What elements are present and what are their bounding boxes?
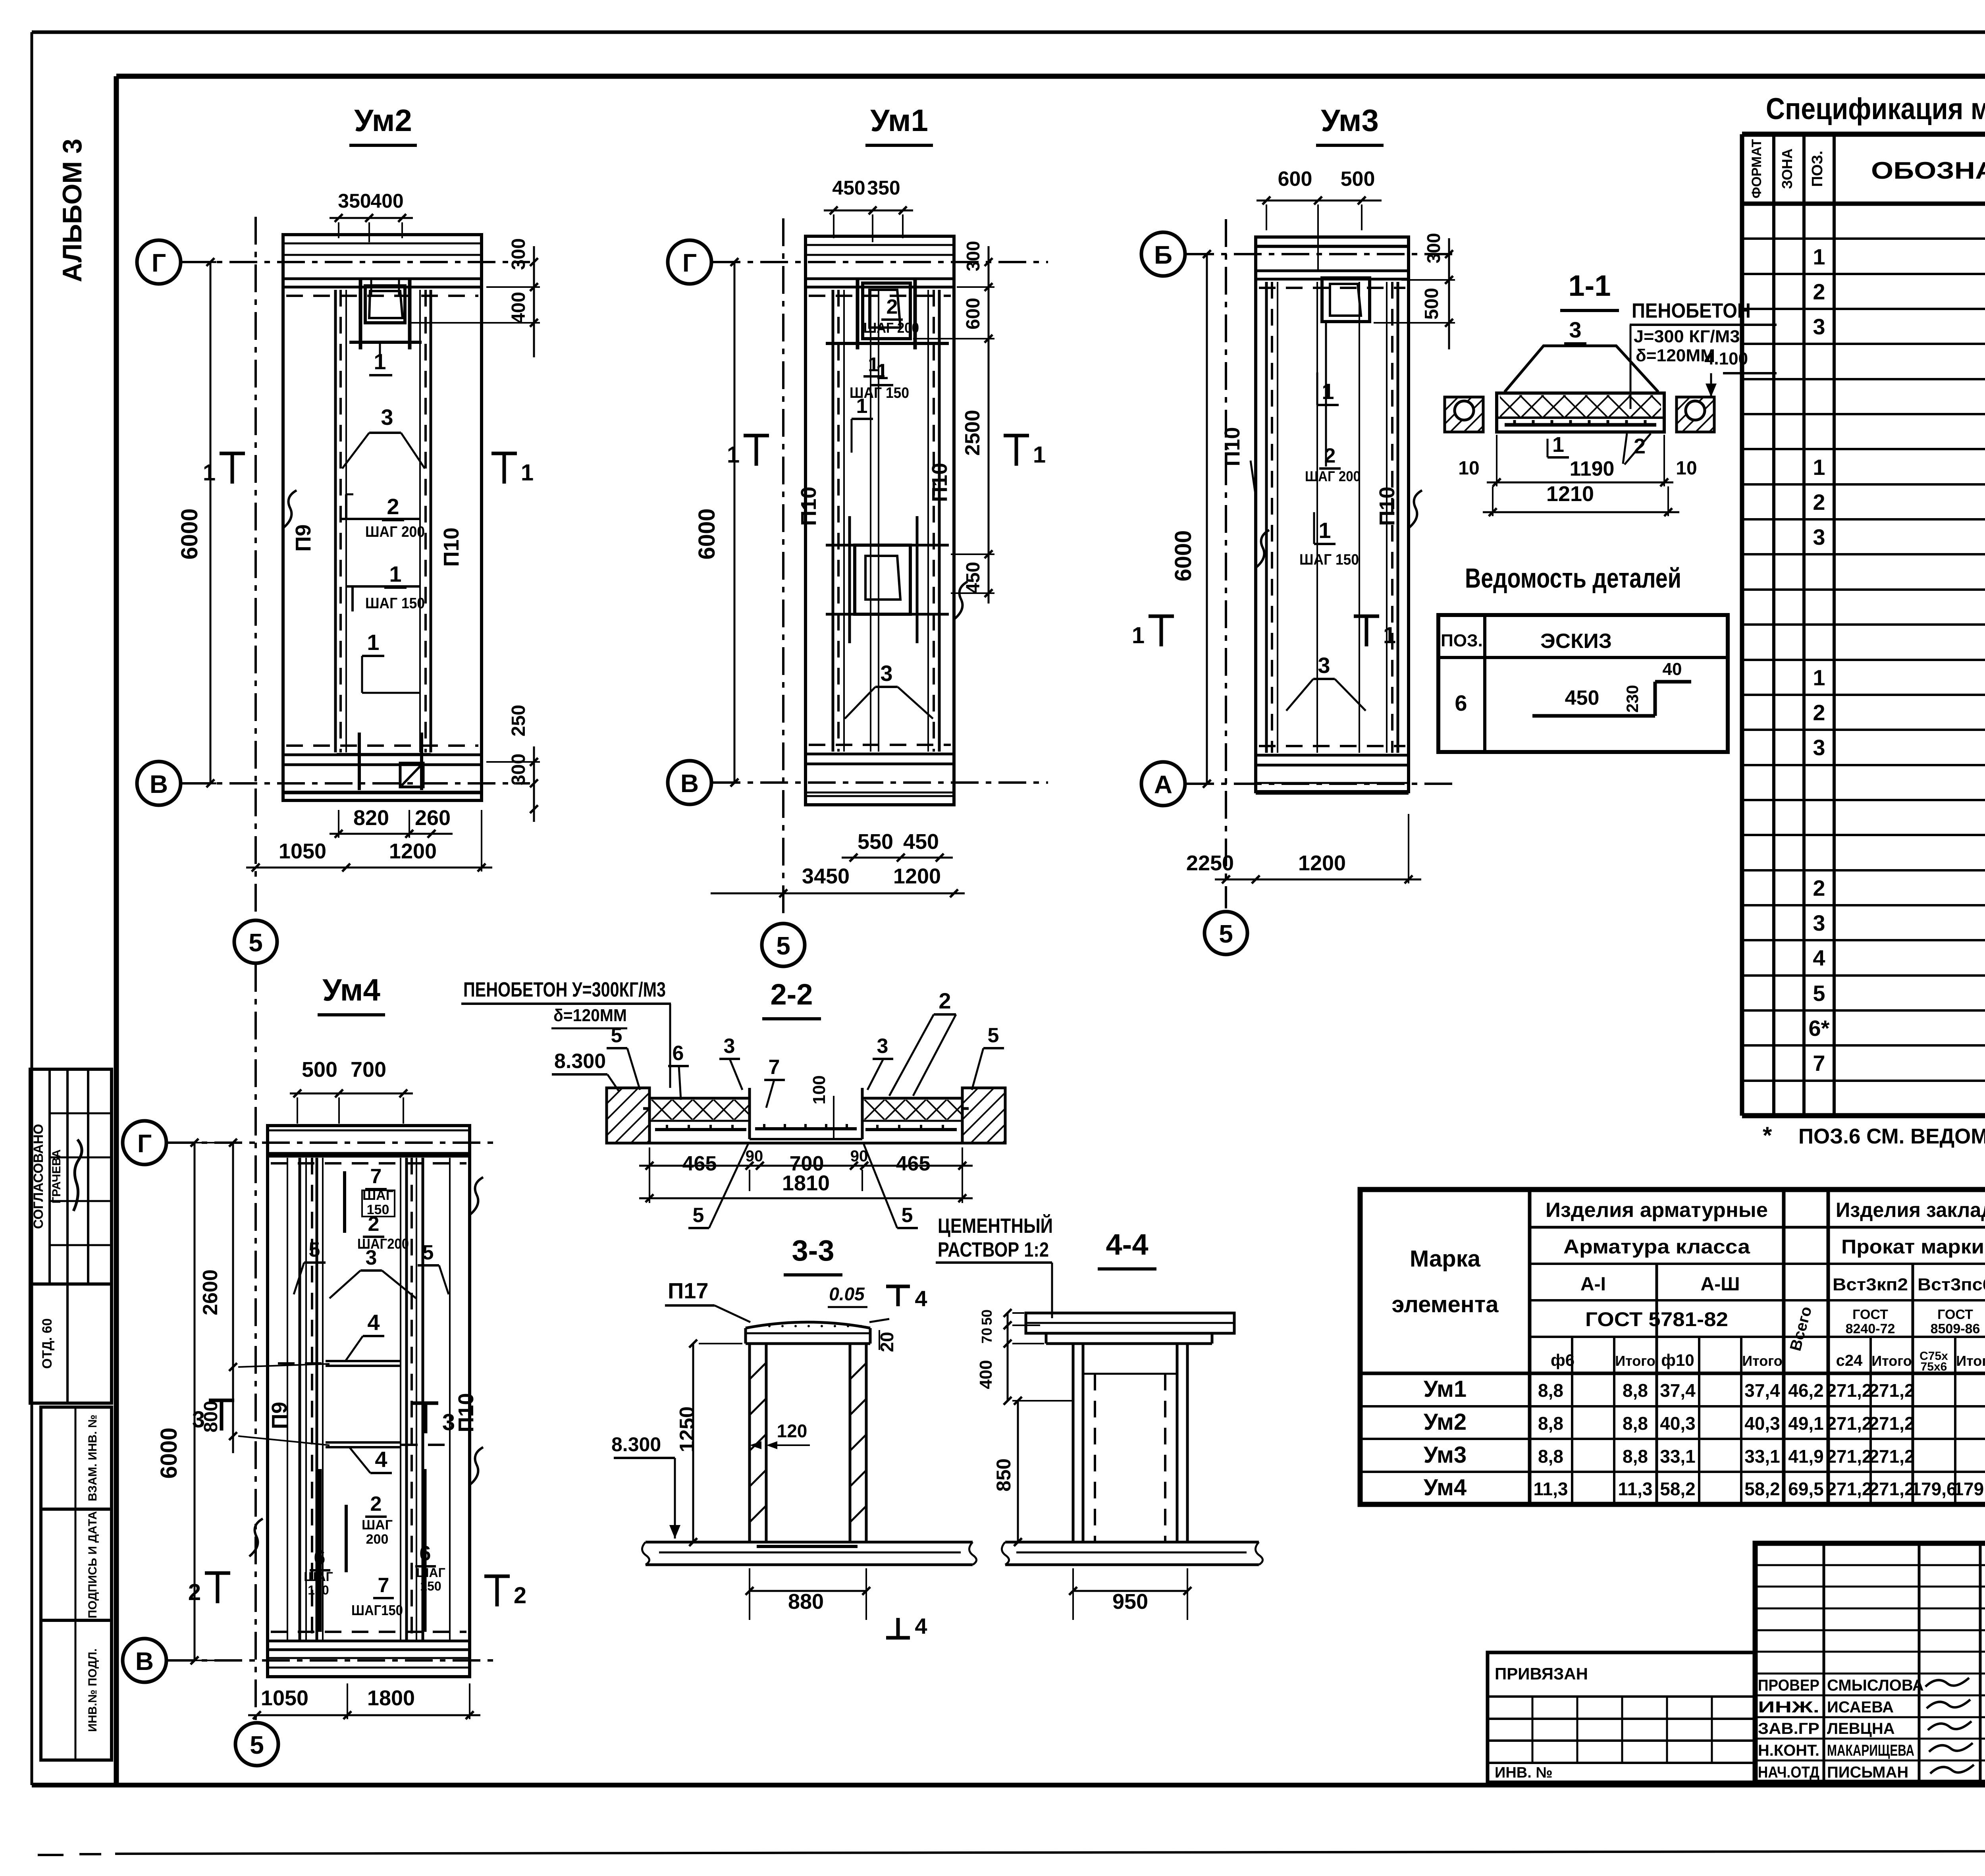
svg-text:3: 3 — [366, 1246, 377, 1269]
svg-text:ПРОВЕР: ПРОВЕР — [1758, 1677, 1819, 1694]
sidebar box INV No PODL — [41, 1620, 112, 1760]
svg-text:5: 5 — [776, 931, 790, 960]
svg-text:В: В — [135, 1647, 154, 1675]
svg-text:2-2: 2-2 — [771, 978, 813, 1011]
svg-text:1800: 1800 — [367, 1686, 415, 1710]
svg-text:5: 5 — [422, 1241, 434, 1264]
sidebar box VZAM INV No — [41, 1407, 112, 1509]
svg-text:600: 600 — [1278, 168, 1312, 191]
svg-text:П10: П10 — [454, 1393, 478, 1433]
svg-text:3: 3 — [880, 661, 892, 686]
view Um2 bottom dimensions — [330, 833, 453, 835]
svg-text:СМЫСЛОВА: СМЫСЛОВА — [1827, 1677, 1924, 1694]
svg-text:НАЧ.ОТД: НАЧ.ОТД — [1758, 1764, 1819, 1781]
svg-text:1: 1 — [876, 359, 888, 384]
svg-text:3: 3 — [1813, 314, 1825, 339]
svg-text:Прокат марки: Прокат марки — [1841, 1236, 1984, 1258]
view Um3 top opening detail — [1322, 278, 1370, 322]
section 2-2 dimensions — [639, 1165, 973, 1167]
svg-text:300: 300 — [963, 241, 983, 272]
svg-text:2600: 2600 — [199, 1269, 222, 1315]
svg-text:7: 7 — [370, 1165, 382, 1188]
svg-text:ШАГ 200: ШАГ 200 — [863, 320, 919, 336]
view Um1 breakline — [954, 582, 967, 619]
view Um4 section marks — [220, 1400, 224, 1431]
svg-text:2: 2 — [939, 988, 951, 1013]
svg-text:0.05: 0.05 — [829, 1284, 865, 1304]
svg-text:3: 3 — [381, 405, 393, 430]
svg-text:ПРИВЯЗАН: ПРИВЯЗАН — [1495, 1664, 1588, 1683]
svg-text:2: 2 — [370, 1492, 382, 1515]
section 2-2 left wall block — [607, 1088, 649, 1143]
svg-text:75х6: 75х6 — [1921, 1360, 1947, 1373]
svg-text:69,5: 69,5 — [1788, 1479, 1824, 1499]
svg-text:10: 10 — [1458, 458, 1479, 479]
svg-text:1: 1 — [1813, 455, 1825, 480]
svg-text:А-I: А-I — [1580, 1274, 1606, 1295]
svg-text:40,3: 40,3 — [1744, 1413, 1780, 1434]
svg-text:450: 450 — [1565, 686, 1600, 710]
view Um3 section marks — [1160, 616, 1163, 646]
svg-text:271,2: 271,2 — [1869, 1380, 1914, 1401]
svg-text:5: 5 — [1219, 920, 1233, 948]
svg-text:ОБОЗНАЧЕНИЕ: ОБОЗНАЧЕНИЕ — [1871, 157, 1985, 184]
svg-text:3: 3 — [1813, 524, 1825, 549]
svg-text:ИНВ. №: ИНВ. № — [1495, 1764, 1553, 1781]
svg-text:J=300 КГ/М3,: J=300 КГ/М3, — [1634, 327, 1745, 346]
svg-text:850: 850 — [992, 1458, 1015, 1491]
svg-text:ГОСТ: ГОСТ — [1852, 1307, 1888, 1322]
svg-text:50: 50 — [979, 1309, 995, 1325]
svg-text:Б: Б — [1154, 241, 1172, 269]
svg-text:271,2: 271,2 — [1826, 1413, 1872, 1434]
view Um1 vertical dimension 6000 — [734, 262, 736, 783]
svg-text:8.300: 8.300 — [554, 1050, 606, 1073]
svg-text:ШАГ 150: ШАГ 150 — [365, 595, 425, 612]
svg-text:350: 350 — [338, 190, 371, 212]
svg-text:5: 5 — [250, 1731, 264, 1759]
view Um2 right dimensions 250 300 bottom — [533, 746, 535, 822]
view Um3 breaklines — [1256, 530, 1269, 568]
svg-text:1200: 1200 — [893, 864, 941, 888]
svg-text:450: 450 — [832, 177, 865, 199]
svg-text:8,8: 8,8 — [1623, 1446, 1648, 1467]
section 1-1 right support block — [1677, 397, 1714, 432]
svg-text:5: 5 — [249, 928, 263, 957]
svg-text:300: 300 — [1423, 233, 1444, 264]
section 2-2 right wall block — [962, 1088, 1005, 1143]
svg-text:1190: 1190 — [1570, 457, 1615, 480]
svg-text:550: 550 — [858, 830, 893, 854]
svg-text:Ум3: Ум3 — [1321, 103, 1379, 138]
svg-text:В: В — [150, 770, 168, 798]
section 1-1 left support block — [1445, 397, 1483, 432]
svg-text:Ум4: Ум4 — [322, 972, 380, 1007]
svg-text:465: 465 — [896, 1152, 931, 1175]
svg-text:Марка: Марка — [1410, 1246, 1481, 1272]
view Um4 axis 5 line and circles — [254, 1108, 257, 1723]
svg-text:6: 6 — [673, 1042, 684, 1065]
svg-text:δ=120ММ: δ=120ММ — [1636, 346, 1715, 365]
svg-text:8240-72: 8240-72 — [1846, 1321, 1895, 1336]
svg-text:ФОРМАТ: ФОРМАТ — [1749, 139, 1764, 199]
svg-text:Г: Г — [682, 249, 697, 277]
svg-text:8,8: 8,8 — [1538, 1413, 1563, 1434]
svg-text:1200: 1200 — [389, 839, 437, 863]
svg-text:400: 400 — [508, 292, 529, 324]
svg-text:Н.КОНТ.: Н.КОНТ. — [1758, 1742, 1819, 1759]
svg-text:2: 2 — [1813, 700, 1825, 725]
svg-text:ОТД. 60: ОТД. 60 — [40, 1318, 55, 1369]
svg-text:90: 90 — [746, 1147, 763, 1165]
title block main frame — [1755, 1543, 1985, 1782]
svg-text:700: 700 — [351, 1058, 386, 1082]
svg-text:П10: П10 — [928, 463, 952, 502]
svg-text:271,2: 271,2 — [1826, 1446, 1872, 1467]
svg-text:4-4: 4-4 — [1106, 1228, 1149, 1261]
svg-text:2: 2 — [1813, 279, 1825, 304]
section 3-3 top slab — [746, 1322, 870, 1328]
svg-text:10: 10 — [1676, 458, 1697, 479]
svg-text:ШАГ 200: ШАГ 200 — [1305, 468, 1361, 484]
svg-text:40: 40 — [1663, 659, 1682, 679]
view Um4 horizontal bars pos4 — [326, 1360, 401, 1362]
svg-text:2: 2 — [1813, 875, 1825, 900]
svg-text:1: 1 — [521, 460, 534, 486]
svg-text:1250: 1250 — [676, 1406, 699, 1452]
svg-text:179,6: 179,6 — [1911, 1479, 1956, 1499]
svg-text:250: 250 — [508, 705, 529, 737]
svg-text:Ум3: Ум3 — [1424, 1442, 1467, 1468]
svg-text:3-3: 3-3 — [792, 1234, 834, 1267]
svg-text:Спецификация монолитных учас: Спецификация монолитных участков Ум1... … — [1766, 92, 1985, 126]
inner drawing frame — [116, 74, 1985, 79]
svg-text:ПОДПИСЬ И ДАТА: ПОДПИСЬ И ДАТА — [86, 1511, 99, 1618]
svg-text:ШАГ200: ШАГ200 — [357, 1236, 409, 1252]
svg-text:5: 5 — [1813, 981, 1825, 1006]
svg-text:271,2: 271,2 — [1869, 1413, 1914, 1434]
svg-text:Изделия арматурные: Изделия арматурные — [1546, 1199, 1768, 1222]
view Um2 breakline — [283, 490, 297, 528]
svg-text:δ=120ММ: δ=120ММ — [553, 1006, 627, 1025]
section 1-1 slab — [1497, 393, 1664, 432]
svg-text:Итого: Итого — [1615, 1353, 1655, 1369]
section 4-4 dim 850 — [1017, 1401, 1019, 1542]
svg-text:ГОСТ: ГОСТ — [1937, 1307, 1973, 1322]
svg-text:5: 5 — [902, 1204, 913, 1227]
svg-text:6*: 6* — [1809, 1016, 1830, 1041]
view Um1 bottom dimensions — [842, 857, 953, 859]
svg-text:8,8: 8,8 — [1623, 1413, 1648, 1434]
svg-text:5: 5 — [309, 1238, 320, 1261]
view Um4 inner formwork lines — [287, 1158, 288, 1640]
svg-text:1: 1 — [389, 561, 401, 586]
section 4-4 walls — [1072, 1344, 1075, 1542]
svg-text:49,1: 49,1 — [1788, 1413, 1824, 1434]
svg-text:РАСТВОР 1:2: РАСТВОР 1:2 — [938, 1238, 1049, 1261]
section 4-4 floor — [1005, 1541, 1259, 1544]
svg-text:1-1: 1-1 — [1569, 269, 1611, 302]
svg-text:5: 5 — [611, 1024, 622, 1047]
svg-text:Г: Г — [152, 249, 166, 277]
svg-text:230: 230 — [1623, 685, 1642, 713]
svg-text:МАКАРИЩЕВА: МАКАРИЩЕВА — [1827, 1742, 1914, 1759]
svg-text:1: 1 — [1318, 518, 1331, 543]
svg-text:6000: 6000 — [1170, 530, 1196, 581]
svg-text:7: 7 — [1813, 1051, 1825, 1076]
svg-text:8,8: 8,8 — [1538, 1380, 1563, 1401]
svg-text:1200: 1200 — [1298, 851, 1346, 875]
svg-text:6: 6 — [1455, 690, 1467, 715]
section 3-3 floor breaks — [642, 1542, 649, 1565]
svg-text:6000: 6000 — [694, 508, 720, 559]
svg-text:ПОЗ.: ПОЗ. — [1441, 631, 1483, 650]
view Um1 right dimensions — [988, 246, 990, 603]
svg-text:ф6: ф6 — [1551, 1351, 1575, 1369]
svg-text:4: 4 — [367, 1310, 380, 1335]
svg-text:3: 3 — [877, 1035, 888, 1058]
svg-text:Ум2: Ум2 — [354, 103, 412, 138]
svg-text:Итого: Итого — [1871, 1353, 1912, 1369]
svg-text:271,2: 271,2 — [1869, 1446, 1914, 1467]
svg-text:950: 950 — [1112, 1590, 1148, 1614]
svg-text:2250: 2250 — [1186, 851, 1234, 875]
svg-text:1: 1 — [367, 630, 379, 655]
svg-text:1: 1 — [1322, 379, 1334, 404]
svg-text:ЛЕВЦНА: ЛЕВЦНА — [1827, 1720, 1895, 1737]
svg-text:П10: П10 — [797, 487, 821, 526]
svg-text:8509-86: 8509-86 — [1931, 1321, 1980, 1336]
svg-text:8,8: 8,8 — [1538, 1446, 1563, 1467]
view Um2 right dimensions 300 400 — [533, 246, 535, 357]
section 2-2 left slab — [649, 1097, 750, 1100]
svg-text:ПЕНОБЕТОН: ПЕНОБЕТОН — [1632, 299, 1751, 322]
svg-text:П10: П10 — [439, 528, 463, 567]
svg-text:А: А — [1154, 770, 1172, 799]
svg-text:3: 3 — [1569, 317, 1581, 342]
svg-text:58,2: 58,2 — [1660, 1479, 1696, 1499]
svg-text:7: 7 — [378, 1574, 389, 1597]
svg-text:200: 200 — [366, 1532, 389, 1547]
section 4-4 floor breaks — [1002, 1542, 1009, 1565]
svg-text:500: 500 — [1421, 288, 1442, 320]
svg-text:2: 2 — [1324, 444, 1336, 467]
view Um2 top opening detail pos1 — [365, 286, 405, 323]
svg-text:1: 1 — [1813, 244, 1825, 269]
svg-text:6000: 6000 — [177, 508, 202, 559]
svg-text:1210: 1210 — [1546, 482, 1594, 506]
section 4-4 flange — [1046, 1332, 1212, 1335]
svg-text:ШАГ: ШАГ — [416, 1566, 445, 1580]
svg-text:П10: П10 — [1220, 427, 1244, 467]
svg-text:ПЕНОБЕТОН У=300КГ/М3: ПЕНОБЕТОН У=300КГ/М3 — [463, 978, 666, 1001]
view Um4 rebar bars pos6 pos7 — [318, 1469, 322, 1632]
svg-text:40,3: 40,3 — [1660, 1413, 1696, 1434]
steel summary table grid — [1360, 1190, 1985, 1504]
svg-text:271,2: 271,2 — [1869, 1479, 1914, 1499]
svg-text:7: 7 — [769, 1056, 780, 1079]
view Um2 vertical dimension 6000 — [210, 262, 212, 783]
bottom scan line — [38, 1854, 64, 1856]
svg-text:Ведомость деталей: Ведомость деталей — [1465, 563, 1681, 594]
svg-text:271,2: 271,2 — [1826, 1380, 1872, 1401]
svg-text:400: 400 — [976, 1360, 996, 1389]
view Um4 column outline — [268, 1126, 470, 1677]
view Um2 section marks 1T — [231, 453, 234, 484]
svg-text:58,2: 58,2 — [1744, 1479, 1780, 1499]
view Um1 mid opening detail — [855, 545, 910, 614]
svg-text:2: 2 — [887, 295, 898, 318]
svg-text:П9: П9 — [268, 1402, 291, 1429]
svg-text:П10: П10 — [1375, 487, 1399, 526]
view Um1 top opening detail — [863, 283, 910, 339]
section 2-2 right slab — [862, 1097, 962, 1100]
svg-text:1: 1 — [203, 460, 216, 486]
svg-text:37,4: 37,4 — [1744, 1380, 1780, 1401]
svg-text:37,4: 37,4 — [1660, 1380, 1696, 1401]
svg-text:5: 5 — [988, 1024, 999, 1047]
svg-text:70: 70 — [979, 1328, 995, 1344]
svg-text:Ум4: Ум4 — [1424, 1475, 1467, 1500]
svg-text:260: 260 — [415, 806, 451, 830]
vedomost detalei table — [1438, 615, 1728, 752]
svg-text:ПОЗ.: ПОЗ. — [1809, 150, 1826, 187]
svg-text:3450: 3450 — [802, 864, 850, 888]
svg-text:2: 2 — [368, 1213, 380, 1236]
svg-text:ГРАЧЕВА: ГРАЧЕВА — [50, 1149, 63, 1204]
svg-text:4: 4 — [375, 1447, 387, 1472]
svg-text:ШАГ 200: ШАГ 200 — [365, 524, 425, 540]
section 2-2 center strip — [748, 1088, 751, 1139]
svg-text:465: 465 — [682, 1152, 717, 1175]
svg-text:3: 3 — [1813, 735, 1825, 760]
svg-text:ИНВ.№ ПОДЛ.: ИНВ.№ ПОДЛ. — [86, 1648, 99, 1732]
svg-text:33,1: 33,1 — [1660, 1446, 1696, 1467]
svg-text:8.300: 8.300 — [611, 1433, 661, 1456]
svg-text:8,8: 8,8 — [1623, 1380, 1648, 1401]
svg-text:1: 1 — [1383, 623, 1396, 648]
svg-text:Итого: Итого — [1956, 1353, 1985, 1369]
svg-text:В: В — [680, 769, 699, 798]
svg-text:3: 3 — [1813, 910, 1825, 935]
section 3-3 walls — [750, 1344, 766, 1542]
svg-text:Ум1: Ум1 — [870, 103, 928, 138]
svg-text:100: 100 — [809, 1075, 829, 1104]
view Um4 bottom dimensions — [248, 1714, 480, 1716]
svg-text:5: 5 — [693, 1204, 704, 1227]
sidebar signature squiggle — [73, 1139, 82, 1211]
svg-text:1810: 1810 — [782, 1171, 830, 1195]
svg-text:3: 3 — [1318, 653, 1330, 678]
svg-text:500: 500 — [1341, 168, 1375, 191]
svg-text:ф10: ф10 — [1661, 1351, 1694, 1369]
svg-text:ШАГ 150: ШАГ 150 — [1299, 551, 1359, 568]
svg-text:ЦЕМЕНТНЫЙ: ЦЕМЕНТНЫЙ — [938, 1214, 1053, 1238]
svg-text:ЭСКИЗ: ЭСКИЗ — [1540, 630, 1612, 653]
svg-text:4: 4 — [915, 1286, 927, 1311]
svg-text:ИСАЕВА: ИСАЕВА — [1827, 1699, 1894, 1716]
svg-text:2500: 2500 — [961, 410, 984, 456]
svg-text:500: 500 — [302, 1058, 337, 1082]
svg-text:450: 450 — [963, 562, 984, 594]
svg-text:2: 2 — [514, 1583, 526, 1608]
svg-text:11,3: 11,3 — [1534, 1479, 1568, 1499]
sidebar box PODPIS I DATA — [41, 1509, 112, 1620]
svg-text:элемента: элемента — [1391, 1292, 1499, 1317]
svg-text:4.100: 4.100 — [1704, 349, 1748, 368]
svg-text:Итого: Итого — [1742, 1353, 1783, 1369]
sidebar box OTD 60 — [30, 1284, 112, 1403]
view Um3 bottom dimensions — [1215, 879, 1421, 881]
section 1-1 trapezoid pos3 — [1505, 346, 1658, 392]
svg-text:1: 1 — [1552, 433, 1564, 457]
view Um1 section marks — [755, 436, 758, 466]
svg-text:1050: 1050 — [279, 839, 326, 863]
svg-text:Арматура класса: Арматура класса — [1563, 1236, 1750, 1258]
svg-text:2: 2 — [1813, 490, 1825, 515]
section 3-3 floor — [646, 1541, 973, 1544]
svg-text:6000: 6000 — [156, 1427, 182, 1479]
view Um3 right dimensions — [1448, 238, 1450, 349]
svg-text:ЗОНА: ЗОНА — [1779, 148, 1795, 189]
svg-text:Ум2: Ум2 — [1424, 1409, 1467, 1435]
view Um4 breaklines — [249, 1519, 263, 1556]
svg-text:Вст3пс6: Вст3пс6 — [1918, 1275, 1985, 1294]
svg-text:П9: П9 — [291, 524, 315, 552]
section 3-3 dim 880 — [750, 1590, 866, 1592]
svg-text:3: 3 — [442, 1409, 455, 1435]
svg-text:271,2: 271,2 — [1826, 1479, 1872, 1499]
section 3-3 dim 1250 — [692, 1344, 694, 1542]
outer page border — [32, 31, 1985, 34]
svg-text:Изделия закладные: Изделия закладные — [1836, 1199, 1985, 1222]
section 4-4 left dims 50 70 400 — [1007, 1313, 1009, 1401]
svg-text:ГОСТ 5781-82: ГОСТ 5781-82 — [1585, 1308, 1728, 1330]
svg-text:ЗАВ.ГР: ЗАВ.ГР — [1758, 1720, 1819, 1737]
view Um3 leader to P10 — [1251, 461, 1256, 496]
svg-text:11,3: 11,3 — [1618, 1479, 1653, 1499]
svg-text:4: 4 — [915, 1614, 927, 1639]
svg-text:П17: П17 — [668, 1278, 709, 1303]
section 1-1 dimensions — [1487, 482, 1673, 484]
svg-text:3: 3 — [724, 1035, 735, 1058]
section 3-3 section marks 4 — [896, 1286, 900, 1306]
svg-text:179,6: 179,6 — [1953, 1479, 1985, 1499]
svg-text:2: 2 — [387, 494, 399, 519]
view Um4 left dimensions — [194, 1143, 196, 1660]
svg-text:1: 1 — [1033, 442, 1046, 468]
privyazan box — [1488, 1652, 1755, 1782]
svg-text:ШАГ150: ШАГ150 — [351, 1602, 403, 1618]
svg-text:350: 350 — [867, 177, 900, 199]
svg-text:2: 2 — [188, 1579, 201, 1605]
svg-text:1: 1 — [1132, 623, 1145, 648]
svg-text:46,2: 46,2 — [1788, 1380, 1824, 1401]
section 2-2 angle brackets pos5 — [643, 1088, 649, 1109]
svg-text:820: 820 — [353, 806, 389, 830]
svg-text:600: 600 — [963, 298, 984, 330]
svg-text:400: 400 — [370, 190, 403, 212]
svg-text:120: 120 — [777, 1421, 807, 1441]
sidebar approval box SOGLASOVANO — [30, 1069, 112, 1284]
svg-text:1: 1 — [727, 442, 740, 468]
svg-text:880: 880 — [788, 1590, 824, 1614]
svg-text:Вст3кп2: Вст3кп2 — [1833, 1275, 1908, 1294]
svg-text:33,1: 33,1 — [1744, 1446, 1780, 1467]
section 4-4 top slab — [1026, 1313, 1234, 1333]
svg-text:ПОЗ.6 СМ. ВЕДОМОСТЬ ДЕТАЛЕЙ: ПОЗ.6 СМ. ВЕДОМОСТЬ ДЕТАЛЕЙ НА ДАННОМ ЛИ… — [1798, 1124, 1985, 1148]
svg-text:41,9: 41,9 — [1788, 1446, 1824, 1467]
